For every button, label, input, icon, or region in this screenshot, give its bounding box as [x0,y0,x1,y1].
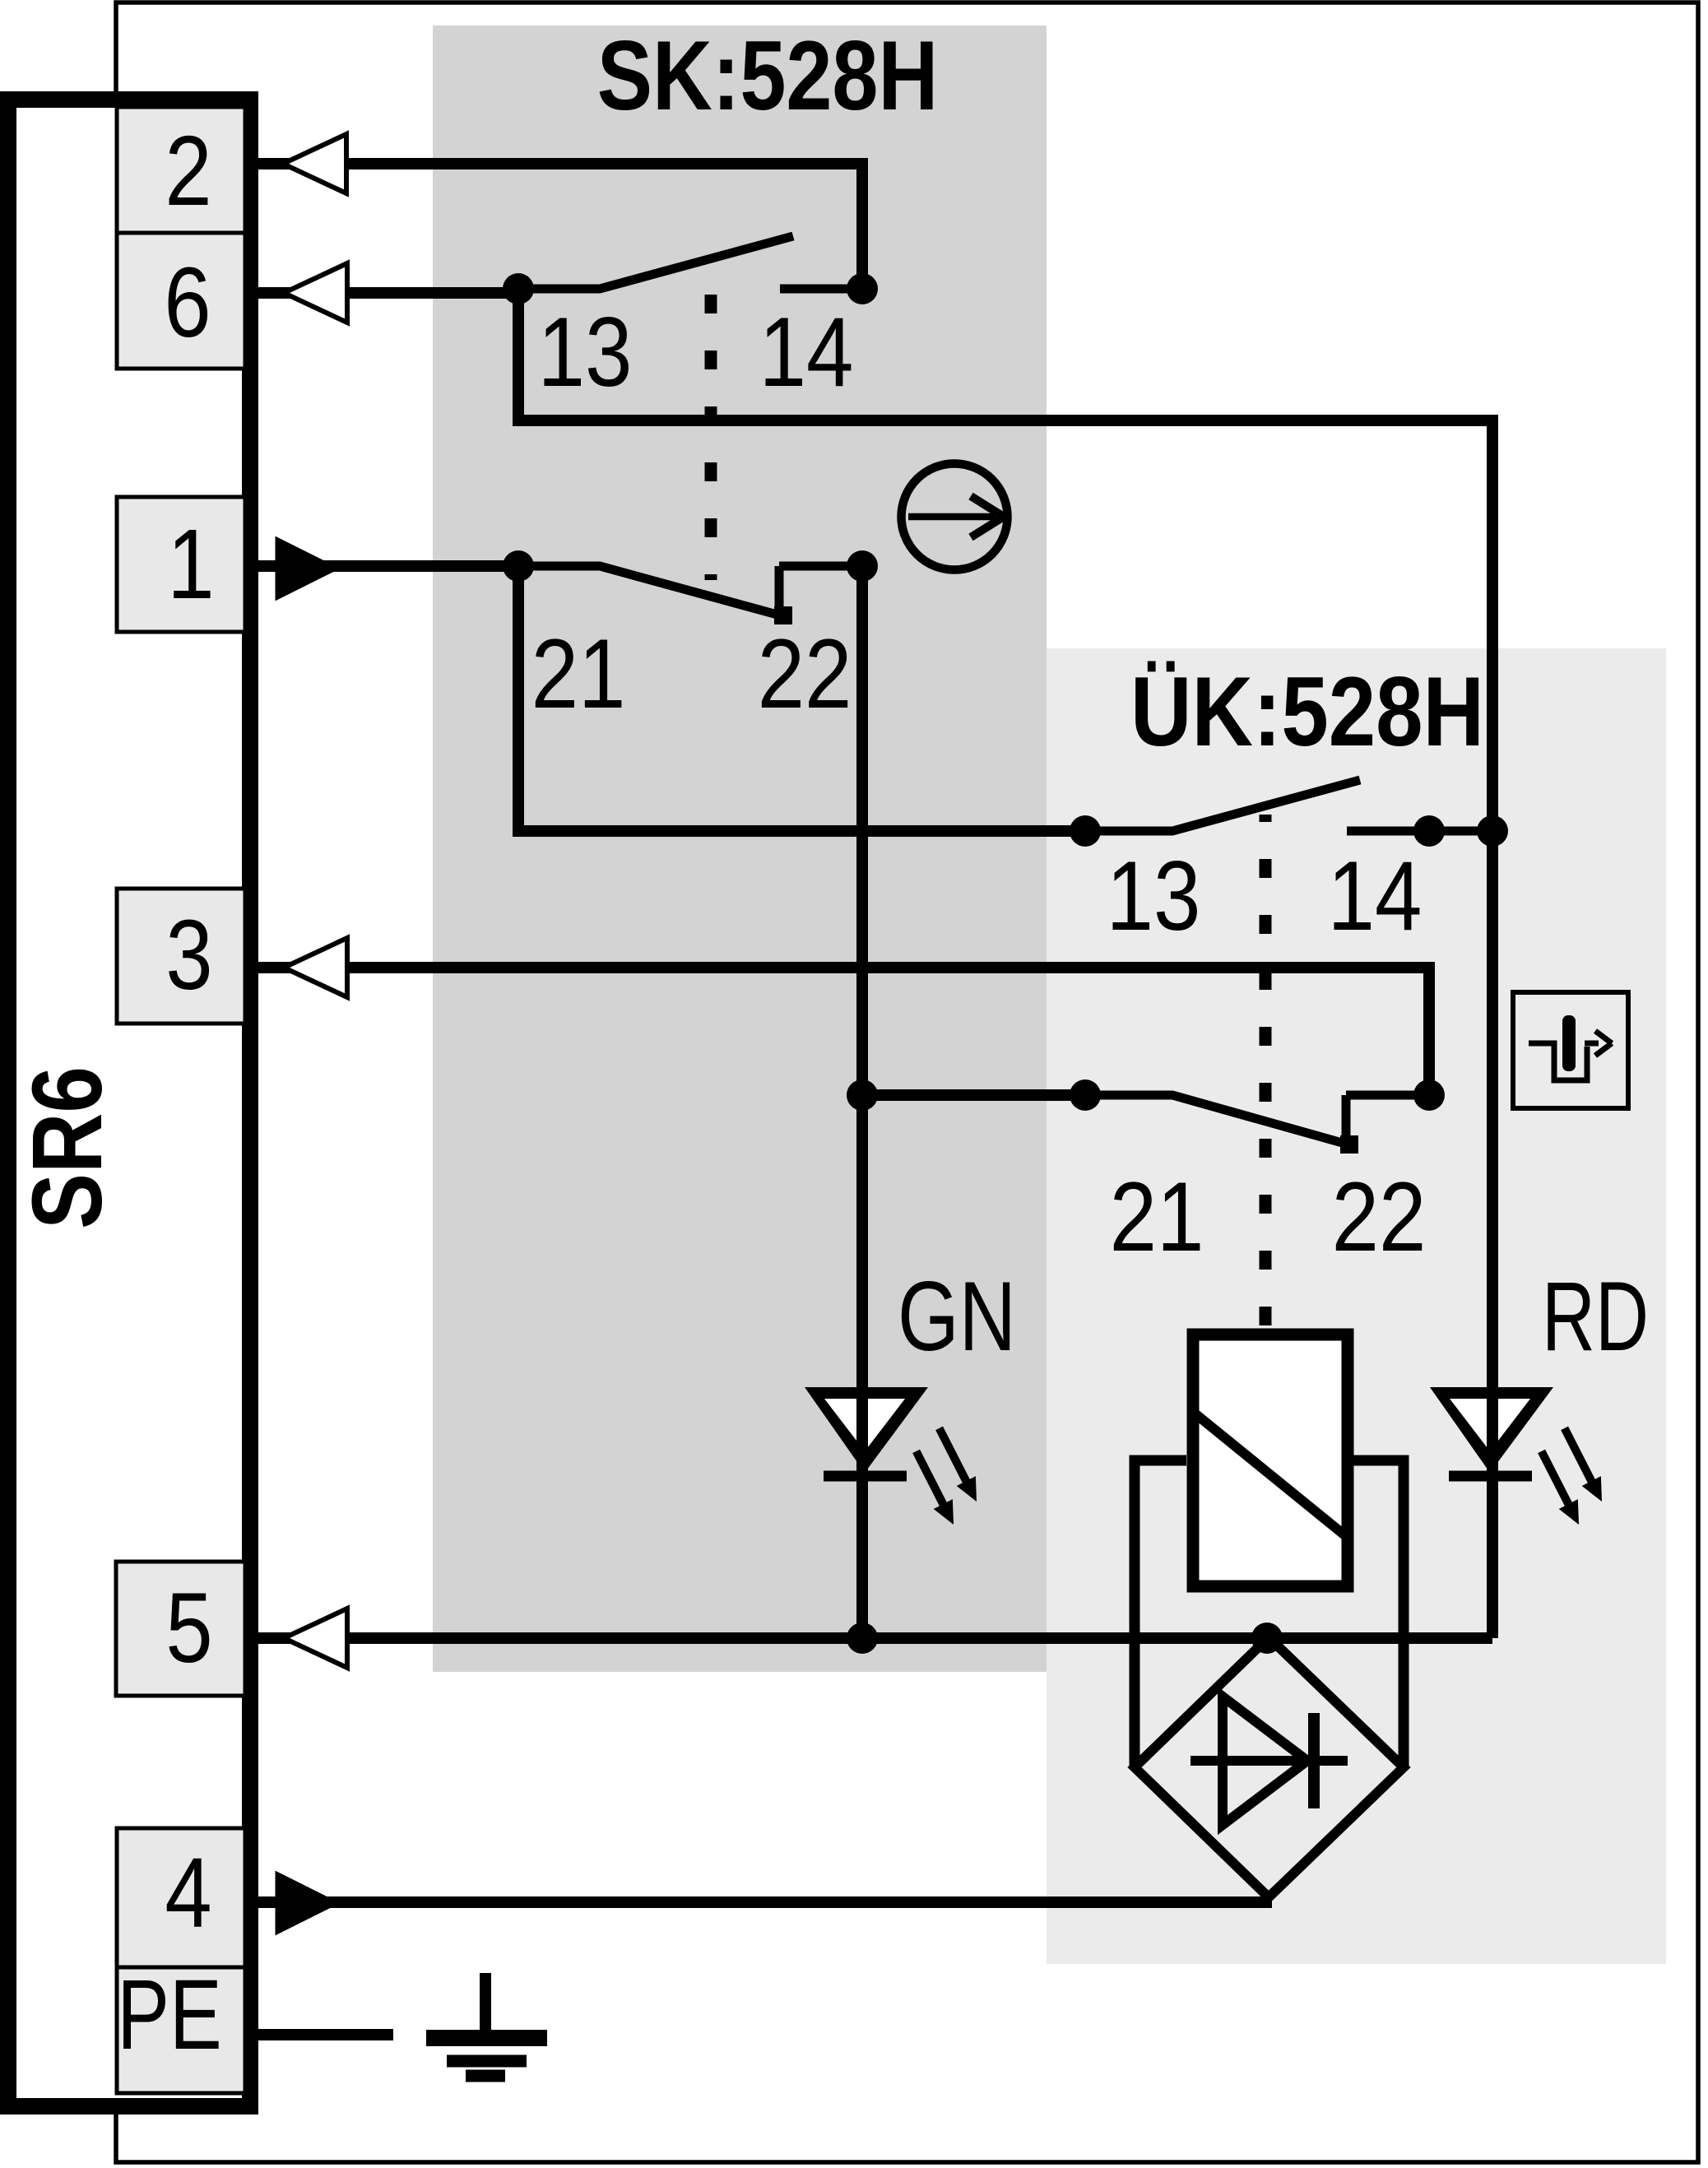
svg-text:PE: PE [117,1959,222,2070]
junction dot wire5/GN [847,1623,878,1654]
svg-text:SK:528H: SK:528H [597,21,938,131]
diode inside [1190,1756,1348,1766]
rectifier bridge diamond [1135,1637,1404,1897]
solenoid feed bracket right [1353,1460,1404,1766]
LED RD cathode bar [1449,1471,1532,1482]
terminal box 1 [117,497,245,632]
arrow into terminal 6 (open) [284,263,347,323]
arrow out of terminal 1 (filled) [276,538,337,599]
wire terminal 3 across and down to UK contact 22 [244,968,1429,1095]
svg-text:GN: GN [898,1262,1016,1372]
arrow into terminal 5 (open) [284,1609,347,1668]
SK contact 13-14 (NO) [503,236,878,407]
svg-text:ÜK:528H: ÜK:528H [1130,657,1484,767]
contact 14 tick [780,285,862,294]
terminal box 3 [117,889,245,1024]
svg-text:4: 4 [165,1836,211,1948]
junction dot to right rail [1477,815,1508,847]
svg-text:3: 3 [165,898,212,1010]
contact 21 dot [503,550,534,582]
panel SK:528H background [433,26,1047,1672]
svg-text:SR6: SR6 [12,1066,123,1229]
svg-text:6: 6 [164,246,211,358]
contact 21 blade [1085,1095,1351,1145]
LED GN symbol [805,1387,986,1530]
svg-text:21: 21 [1110,1162,1204,1272]
contact 22 dot [1413,1079,1445,1111]
wire terminal 5 [244,1632,1492,1644]
contact 13 dot [503,273,534,304]
contact 21 blade [518,566,783,616]
LED GN emission arrows [930,1423,986,1506]
LED RD emission arrows [1555,1423,1612,1506]
contact 13 dot [1070,815,1101,847]
contact 22 stub [1342,1095,1351,1153]
contact 22 tick [1346,1091,1429,1100]
wire terminal 6 to SK contact 13 [244,287,518,299]
LED RD symbol [1430,1387,1612,1530]
UK mechanical link (dashed) [1260,815,1272,1325]
contact 22 stub [775,566,784,624]
ground symbol [426,1973,547,2076]
svg-text:13: 13 [1107,841,1201,951]
contact 22 dot [847,550,878,582]
solenoid release symbol (boxed icon) [1513,992,1628,1108]
contact 21 dot [1070,1079,1101,1111]
svg-text:14: 14 [1328,841,1423,951]
panel UK:528H background [1047,648,1666,1964]
arrow into terminal 3 (open) [284,938,347,997]
svg-text:21: 21 [531,619,626,729]
arrow out of terminal 4 (filled) [276,1873,337,1934]
terminal box 5 [116,1562,245,1696]
svg-text:22: 22 [758,619,852,729]
right rail down through RD LED to wire 5 [1487,831,1498,1638]
contact 14 dot [847,273,878,304]
blade tip nub [1340,1135,1358,1154]
svg-text:2: 2 [165,114,211,226]
svg-text:13: 13 [538,297,633,407]
terminal box 2 [117,107,245,233]
terminal box 4 [117,1828,245,1967]
wire GN branch to UK contact 21 [862,1089,1085,1101]
LED RD triangle [1430,1387,1553,1473]
connector block SR6 [8,100,250,2106]
contact 14 dot [1413,815,1445,847]
solenoid box [1193,1335,1348,1586]
contact 13 blade [1085,780,1360,831]
wire terminal 1 to SK contact 21 [244,560,518,572]
svg-text:22: 22 [1332,1162,1427,1272]
blade tip nub [774,606,792,624]
svg-text:14: 14 [759,297,854,407]
wire terminal 2 to SK contact 14 [244,164,862,289]
svg-text:5: 5 [165,1571,212,1683]
wire SK13 down and across to right rail [518,289,1492,831]
solenoid feed bracket left [1135,1460,1186,1766]
LED GN triangle [805,1387,928,1473]
svg-text:1: 1 [167,508,214,620]
junction dot GN/UK21 branch [847,1079,878,1111]
contact 14 tick [1347,827,1492,836]
wire terminal PE [244,2029,393,2040]
UK contact 13-14 (NO) [1070,780,1508,951]
SK mechanical link (dashed) [705,295,717,580]
svg-text:RD: RD [1542,1262,1649,1372]
contact 13 blade [518,236,793,289]
arrow into terminal 2 (open) [283,134,346,193]
terminal box 6 [117,233,245,369]
terminal box PE [117,1959,245,2093]
SK contact 21-22 (NC) [503,550,878,729]
junction dot wire5/rectifier [1251,1623,1283,1654]
UK contact 21-22 (NC) [1070,1079,1445,1272]
wire SK21 down and across to UK contact 13 [518,566,1085,831]
actuator symbol (circle with arrow) [902,464,1008,570]
wire terminal 4 to rectifier [244,1896,1272,1908]
wire SK22 down through GN LED to wire 5 [856,566,868,1638]
LED GN cathode bar [824,1471,907,1482]
contact 22 tick [779,562,862,571]
